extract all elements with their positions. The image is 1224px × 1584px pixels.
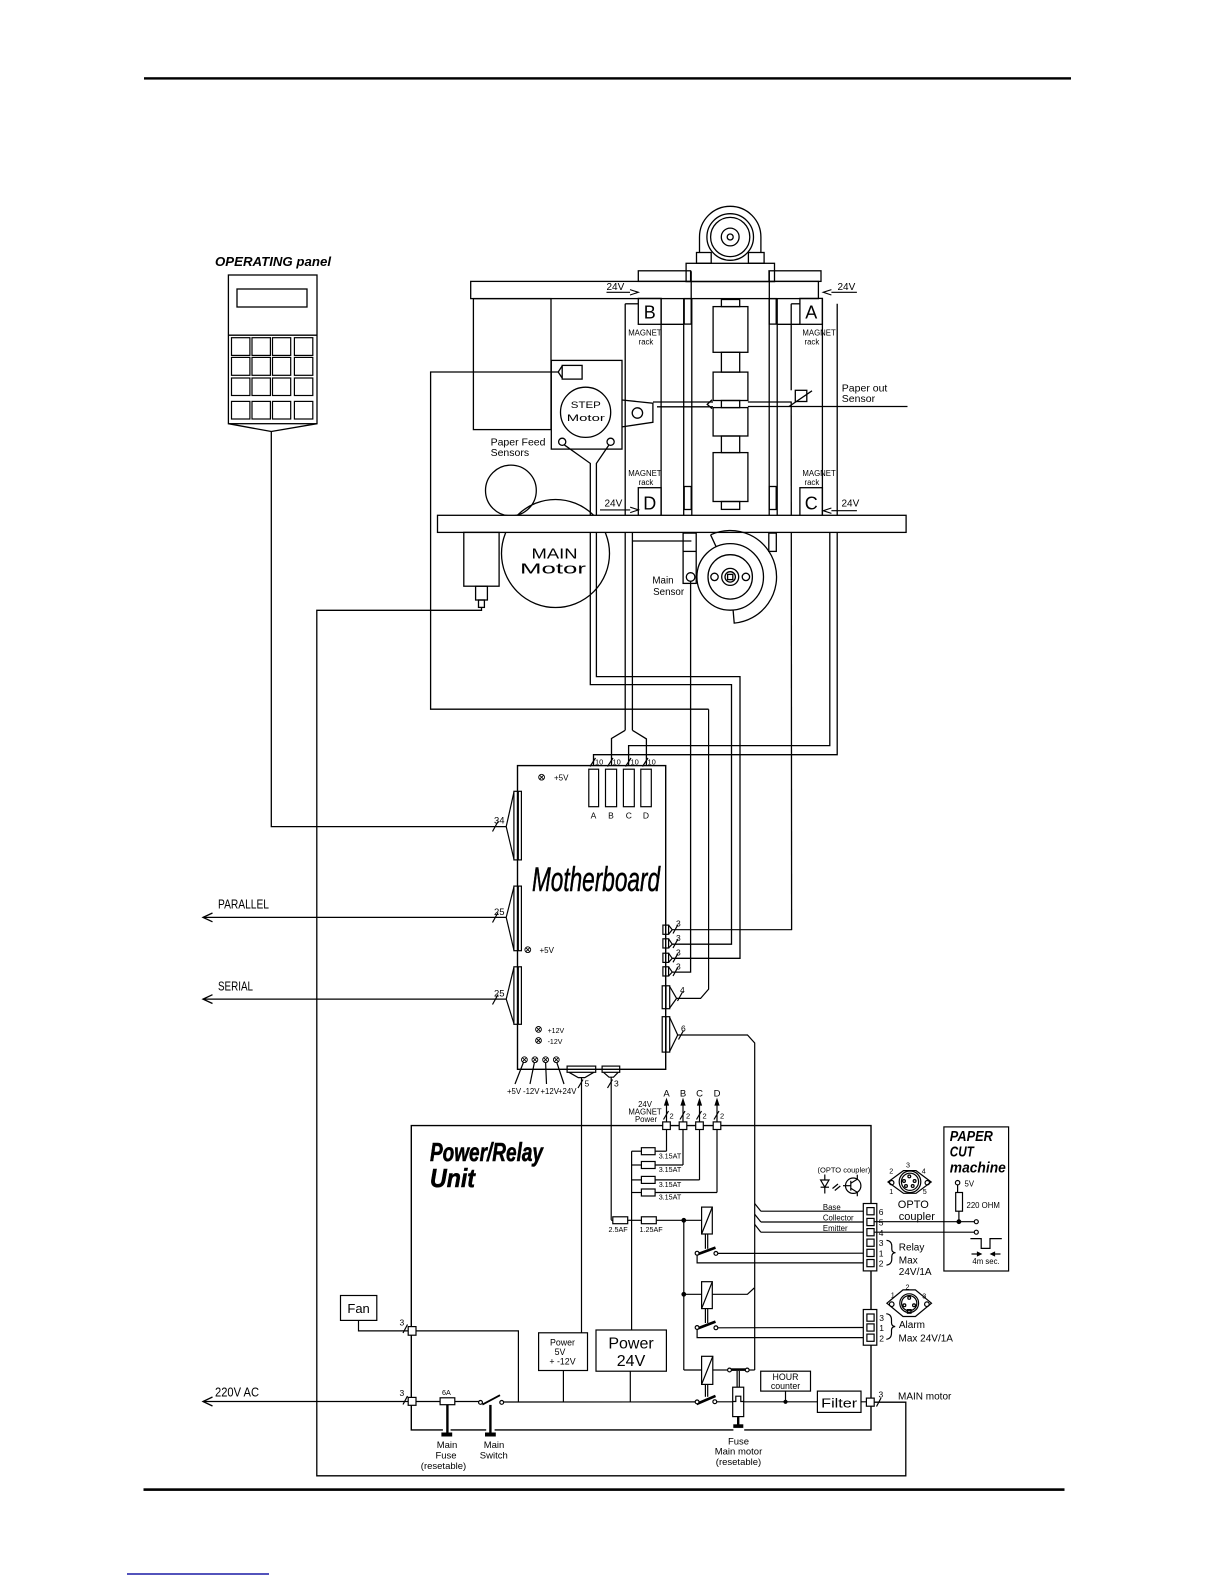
svg-text:machine: machine	[950, 1159, 1006, 1176]
svg-text:3: 3	[922, 1292, 926, 1301]
svg-text:Fuse: Fuse	[435, 1450, 456, 1461]
svg-text:24V: 24V	[838, 282, 856, 293]
svg-text:6A: 6A	[442, 1388, 451, 1397]
svg-text:24V: 24V	[842, 499, 860, 510]
svg-text:rack: rack	[805, 338, 820, 347]
svg-text:1: 1	[889, 1187, 893, 1196]
svg-text:3: 3	[400, 1318, 405, 1328]
svg-text:Power: Power	[608, 1336, 654, 1353]
svg-text:MAGNET: MAGNET	[628, 469, 662, 478]
svg-text:Fan: Fan	[347, 1301, 369, 1316]
svg-text:Filter: Filter	[821, 1396, 858, 1411]
svg-text:Sensors: Sensors	[491, 447, 530, 459]
svg-text:Power: Power	[635, 1115, 658, 1124]
svg-text:Main motor: Main motor	[715, 1447, 763, 1458]
svg-text:6: 6	[879, 1207, 884, 1217]
svg-text:A: A	[805, 303, 817, 323]
svg-text:Sensor: Sensor	[653, 587, 685, 598]
svg-text:2.5AF: 2.5AF	[609, 1225, 629, 1234]
svg-text:rack: rack	[639, 338, 654, 347]
svg-text:1: 1	[879, 1249, 884, 1259]
svg-text:24V: 24V	[607, 282, 625, 293]
svg-text:PAPER: PAPER	[950, 1128, 993, 1145]
svg-text:(resetable): (resetable)	[421, 1461, 466, 1472]
svg-text:Motherboard: Motherboard	[532, 861, 661, 899]
svg-text:3: 3	[400, 1388, 405, 1398]
svg-text:Motor: Motor	[520, 562, 586, 578]
svg-text:Emitter: Emitter	[823, 1224, 848, 1233]
svg-text:PARALLEL: PARALLEL	[218, 897, 269, 912]
svg-text:24V: 24V	[605, 499, 623, 510]
svg-text:4: 4	[922, 1167, 926, 1176]
svg-text:5: 5	[879, 1218, 884, 1228]
svg-text:220 OHM: 220 OHM	[967, 1201, 1000, 1210]
svg-text:3: 3	[879, 1313, 884, 1323]
svg-text:2: 2	[889, 1167, 893, 1176]
svg-text:A: A	[591, 811, 597, 821]
svg-text:3: 3	[614, 1079, 619, 1089]
svg-text:10: 10	[648, 758, 656, 767]
svg-text:(OPTO coupler): (OPTO coupler)	[818, 1166, 871, 1175]
svg-text:Relay: Relay	[899, 1242, 925, 1253]
svg-text:MAIN motor: MAIN motor	[898, 1391, 952, 1402]
svg-text:24V: 24V	[617, 1353, 646, 1370]
svg-text:220V AC: 220V AC	[215, 1385, 259, 1400]
svg-text:-12V: -12V	[548, 1039, 563, 1046]
svg-text:counter: counter	[771, 1381, 800, 1391]
svg-text:3.15AT: 3.15AT	[659, 1193, 682, 1202]
svg-text:B: B	[608, 811, 614, 821]
svg-text:C: C	[626, 811, 632, 821]
svg-text:2: 2	[720, 1112, 724, 1121]
svg-text:Max: Max	[899, 1255, 918, 1266]
svg-text:rack: rack	[639, 478, 654, 487]
svg-text:4m sec.: 4m sec.	[972, 1257, 999, 1266]
svg-text:2: 2	[703, 1112, 707, 1121]
svg-text:3.15AT: 3.15AT	[659, 1180, 682, 1189]
svg-text:MAGNET: MAGNET	[802, 328, 836, 337]
svg-text:A: A	[663, 1089, 670, 1100]
svg-text:2: 2	[686, 1112, 690, 1121]
svg-text:+12V: +12V	[541, 1087, 560, 1096]
svg-text:Max 24V/1A: Max 24V/1A	[899, 1334, 954, 1345]
svg-text:4: 4	[680, 985, 685, 995]
svg-text:2: 2	[879, 1333, 884, 1343]
svg-text:D: D	[643, 811, 649, 821]
svg-text:Switch: Switch	[480, 1450, 508, 1461]
svg-text:Sensor: Sensor	[842, 393, 876, 405]
svg-text:10: 10	[631, 758, 639, 767]
svg-text:Collector: Collector	[823, 1214, 854, 1223]
svg-text:MAIN: MAIN	[532, 547, 578, 563]
svg-text:3: 3	[879, 1238, 884, 1248]
svg-text:+5V: +5V	[554, 774, 569, 783]
svg-text:+5V: +5V	[507, 1087, 522, 1096]
svg-text:5: 5	[923, 1187, 927, 1196]
svg-text:6: 6	[681, 1024, 686, 1034]
svg-text:10: 10	[595, 758, 603, 767]
svg-text:3.15AT: 3.15AT	[659, 1151, 682, 1160]
svg-text:Main: Main	[652, 575, 673, 586]
svg-text:2: 2	[906, 1282, 910, 1291]
svg-text:+24V: +24V	[558, 1087, 577, 1096]
svg-text:CUT: CUT	[950, 1144, 975, 1161]
svg-text:4: 4	[879, 1228, 884, 1238]
svg-text:1: 1	[879, 1323, 884, 1333]
svg-text:(resetable): (resetable)	[716, 1457, 761, 1468]
svg-text:5V: 5V	[555, 1347, 566, 1357]
svg-text:SERIAL: SERIAL	[218, 979, 253, 994]
svg-text:1: 1	[891, 1291, 895, 1300]
svg-text:D: D	[643, 494, 656, 514]
svg-text:Motor: Motor	[567, 413, 605, 424]
svg-text:B: B	[644, 303, 656, 323]
svg-text:Alarm: Alarm	[899, 1320, 925, 1331]
svg-text:MAGNET: MAGNET	[628, 328, 662, 337]
svg-text:C: C	[805, 494, 818, 514]
svg-text:10: 10	[613, 758, 621, 767]
svg-text:3.15AT: 3.15AT	[659, 1165, 682, 1174]
svg-text:OPERATING panel: OPERATING panel	[215, 254, 331, 269]
svg-text:+12V: +12V	[548, 1028, 565, 1035]
svg-text:OPTO: OPTO	[898, 1199, 929, 1211]
svg-text:Base: Base	[823, 1203, 841, 1212]
svg-text:5: 5	[585, 1079, 590, 1089]
svg-text:-12V: -12V	[523, 1087, 540, 1096]
svg-text:1.25AF: 1.25AF	[640, 1225, 664, 1234]
svg-text:MAGNET: MAGNET	[802, 469, 836, 478]
svg-text:Unit: Unit	[430, 1163, 476, 1193]
svg-text:24V/1A: 24V/1A	[899, 1267, 932, 1278]
svg-text:+ -12V: + -12V	[549, 1356, 575, 1366]
svg-text:2: 2	[879, 1259, 884, 1269]
svg-text:5V: 5V	[965, 1179, 975, 1188]
svg-text:3: 3	[906, 1160, 910, 1169]
svg-text:STEP: STEP	[571, 400, 601, 411]
svg-text:rack: rack	[805, 478, 820, 487]
svg-text:+5V: +5V	[540, 946, 555, 955]
svg-text:2: 2	[670, 1112, 674, 1121]
